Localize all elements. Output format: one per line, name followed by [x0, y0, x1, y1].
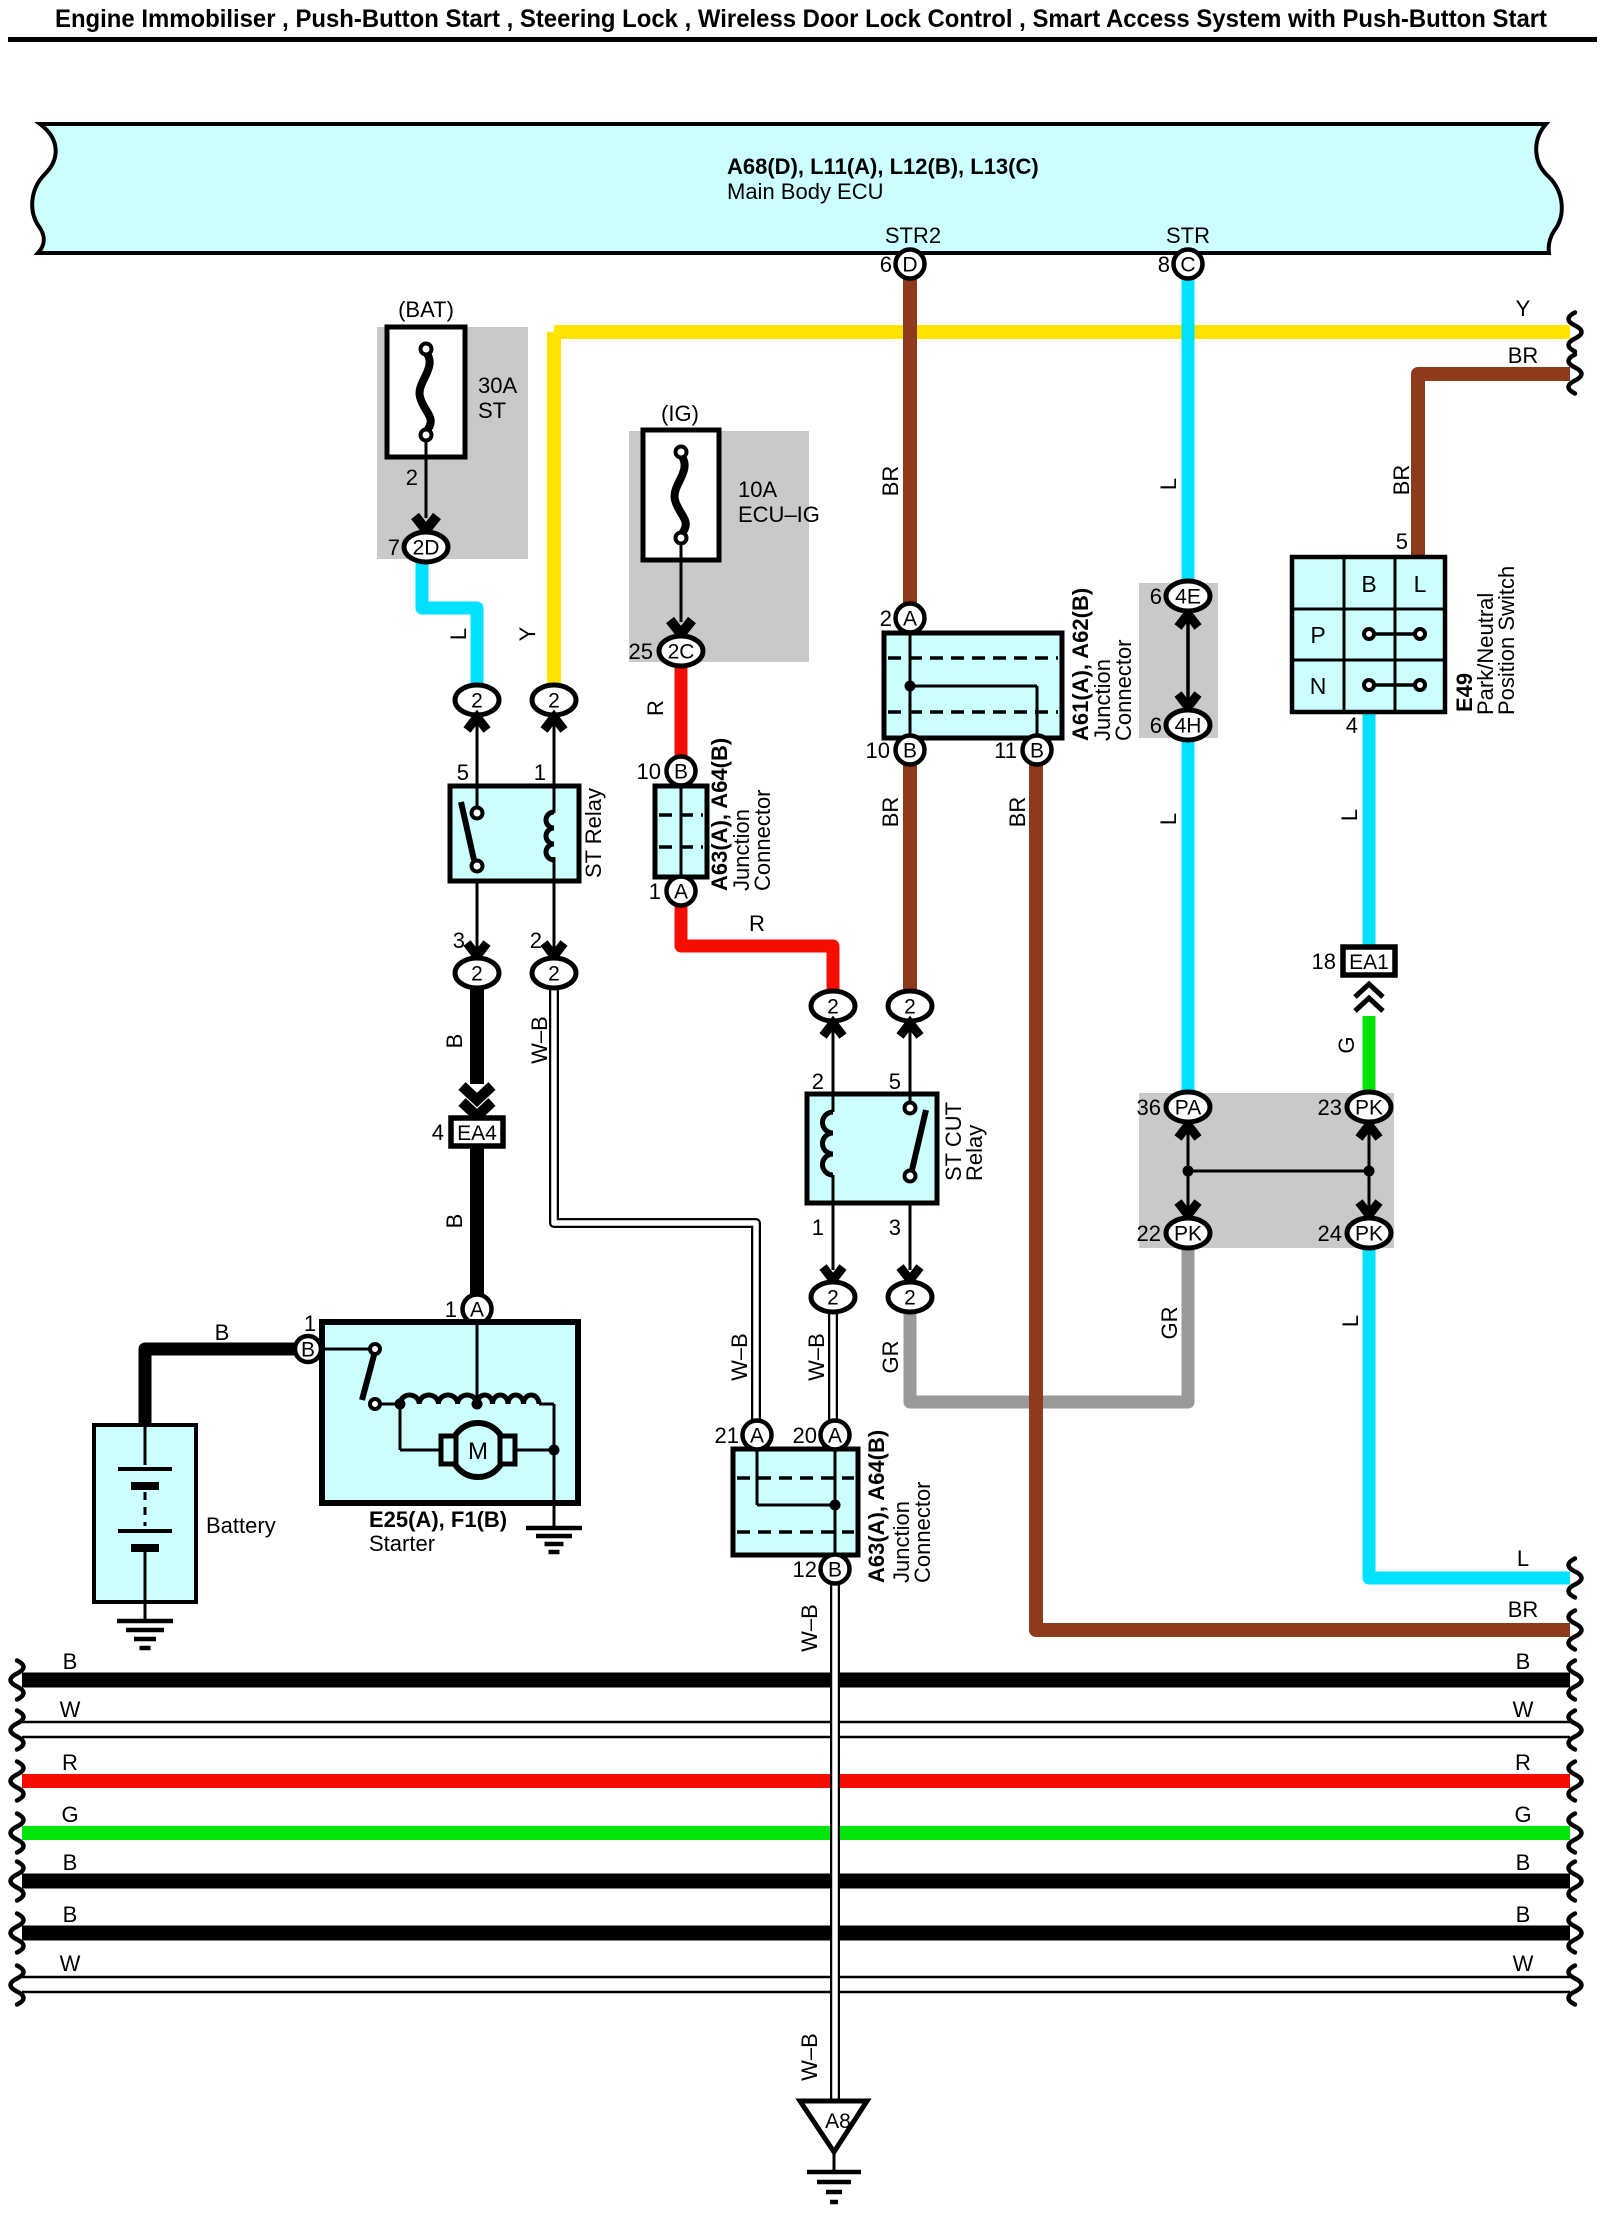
svg-text:L: L	[1156, 813, 1181, 825]
svg-text:R: R	[749, 911, 765, 936]
svg-text:W: W	[1513, 1951, 1534, 1976]
svg-text:(BAT): (BAT)	[398, 297, 454, 322]
svg-text:ECU–IG: ECU–IG	[738, 502, 820, 527]
connector 23 PK	[1347, 1092, 1391, 1122]
bus wire B 1	[22, 1673, 1570, 1688]
svg-text:B: B	[301, 1339, 315, 1362]
fuse bottom terminal	[676, 533, 687, 544]
svg-text:Starter: Starter	[369, 1531, 435, 1556]
break symbol bus left	[11, 1914, 24, 1953]
svg-text:25: 25	[629, 639, 653, 664]
svg-text:L: L	[1337, 809, 1362, 821]
svg-text:BR: BR	[878, 797, 903, 828]
svg-text:2: 2	[548, 963, 560, 986]
svg-text:B: B	[63, 1902, 78, 1927]
break symbol bus left	[11, 1711, 24, 1750]
battery plate short 1	[131, 1482, 159, 1490]
arrow into connector 2	[900, 1023, 920, 1036]
arrow into connector 2	[544, 943, 564, 956]
svg-text:12: 12	[793, 1557, 817, 1582]
starter node 2	[472, 1399, 483, 1410]
svg-text:C: C	[1180, 254, 1195, 277]
connector 2D	[404, 532, 448, 562]
svg-text:4: 4	[1346, 713, 1358, 738]
break symbol bus right	[1569, 1966, 1582, 2005]
svg-text:1: 1	[534, 760, 546, 785]
E49 N contact right	[1415, 680, 1425, 690]
wire BR from ECU pin D to A61 pin A	[903, 278, 917, 604]
svg-text:W: W	[60, 1697, 81, 1722]
svg-text:A: A	[674, 881, 688, 904]
svg-text:BR: BR	[878, 466, 903, 497]
wire L from PK 24 to right edge	[1369, 1248, 1570, 1578]
svg-text:2: 2	[471, 690, 483, 713]
svg-text:L: L	[1156, 478, 1181, 490]
arrow into connector 2	[467, 943, 487, 956]
starter ground lead	[553, 1450, 556, 1528]
ground A8	[800, 2101, 867, 2152]
svg-text:B: B	[903, 740, 917, 763]
connector 2C	[659, 636, 703, 666]
wire ST CUT pin 1	[832, 1203, 835, 1270]
wire ST relay pin 2	[553, 881, 556, 952]
junction internal wire 21	[756, 1449, 759, 1505]
junction internal wire left	[909, 633, 912, 738]
svg-text:18: 18	[1312, 949, 1336, 974]
svg-text:1: 1	[304, 1311, 316, 1336]
svg-text:E25(A), F1(B): E25(A), F1(B)	[369, 1507, 507, 1532]
starter pin 1 A	[463, 1295, 492, 1324]
svg-text:23: 23	[1318, 1095, 1342, 1120]
svg-text:4E: 4E	[1175, 586, 1201, 609]
junction connector A61(A),A62(B)	[884, 633, 1062, 738]
break symbol bus right	[1569, 1862, 1582, 1901]
connector 2 (L wire)	[455, 685, 499, 715]
connector 2 (W-B wire)	[532, 958, 576, 988]
svg-text:B: B	[442, 1214, 467, 1229]
fuse top terminal	[421, 344, 432, 355]
connector 2 (B wire)	[455, 958, 499, 988]
starter wire to motor	[400, 1449, 441, 1452]
junction internal wire	[680, 786, 683, 877]
svg-text:GR: GR	[1157, 1307, 1182, 1340]
wire to ST relay pin 1	[553, 722, 556, 786]
fuse 10A ECU-IG	[643, 430, 719, 560]
svg-text:L: L	[1517, 1546, 1529, 1571]
junction pin 10 B	[667, 757, 696, 786]
wire ST relay pin 3	[476, 881, 479, 952]
svg-text:EA4: EA4	[457, 1122, 497, 1145]
E49 P contact bar	[1369, 632, 1420, 636]
bus wire B 3	[22, 1926, 1570, 1941]
wire between 4E and 4H	[1186, 610, 1190, 711]
svg-text:(IG): (IG)	[661, 401, 699, 426]
connector 36 PA	[1166, 1092, 1210, 1122]
wire B from EA4 to starter pin A	[470, 1146, 484, 1294]
svg-text:36: 36	[1137, 1095, 1161, 1120]
ST CUT coil lead top	[832, 1094, 835, 1112]
ground point EA1	[1343, 947, 1395, 975]
ST relay switch contact bottom	[472, 861, 483, 872]
ST CUT switch blade	[912, 1110, 926, 1170]
svg-text:1: 1	[649, 879, 661, 904]
arrow into connector 2	[823, 1023, 843, 1036]
wire B from ST relay to EA4	[470, 987, 484, 1084]
bus wire W 1	[22, 1721, 1570, 1724]
svg-text:2: 2	[827, 996, 839, 1019]
junction dashed row lines	[888, 656, 1058, 660]
wire BR from right edge to E49 pin 5	[1418, 374, 1570, 557]
svg-text:ST: ST	[478, 398, 506, 423]
break symbol bus left	[11, 1814, 24, 1853]
starter node 3	[549, 1445, 560, 1456]
arrow into PK 23	[1359, 1125, 1379, 1138]
svg-text:B: B	[1361, 571, 1376, 597]
break symbol bus right	[1569, 1661, 1582, 1700]
svg-text:PK: PK	[1355, 1097, 1383, 1120]
svg-text:4H: 4H	[1175, 715, 1202, 738]
svg-text:Engine Immobiliser , Push-Butt: Engine Immobiliser , Push-Button Start ,…	[55, 5, 1548, 33]
wire Y horizontal from ECU area to right edge	[554, 325, 1570, 339]
starter switch contact bottom	[370, 1399, 380, 1409]
arrow into 4H	[1178, 694, 1198, 707]
junction dashed row lines	[659, 813, 703, 817]
junction node	[830, 1500, 841, 1511]
svg-text:10: 10	[637, 759, 661, 784]
svg-text:10A: 10A	[738, 477, 777, 502]
battery	[94, 1425, 196, 1602]
svg-text:P: P	[1310, 622, 1325, 648]
svg-text:L: L	[1338, 1315, 1363, 1327]
svg-text:20: 20	[793, 1423, 817, 1448]
svg-text:2: 2	[530, 928, 542, 953]
starter switch blade	[362, 1355, 374, 1400]
wire B battery to starter	[145, 1349, 296, 1425]
E49 grid vertical 1	[1343, 557, 1346, 712]
ST CUT switch contact top	[905, 1103, 916, 1114]
connector 2 (GR wire)	[888, 1282, 932, 1312]
svg-text:PK: PK	[1355, 1223, 1383, 1246]
motor to node wire	[515, 1449, 554, 1452]
node PA/PK right	[1364, 1166, 1375, 1177]
arrow into PK 22	[1178, 1202, 1198, 1215]
wire W-B from A63 pin 12 to ground A8	[830, 1583, 840, 2100]
break symbol bus left	[11, 1862, 24, 1901]
arrow into connector 2	[900, 1267, 920, 1280]
arrow into 4E	[1178, 614, 1198, 627]
svg-text:A: A	[828, 1425, 842, 1448]
connector shade 4E/4H	[1139, 583, 1218, 738]
arrow into PA	[1178, 1125, 1198, 1138]
svg-text:2: 2	[827, 1287, 839, 1310]
wire R from fuse 2C to A63 pin B	[675, 666, 688, 757]
Main Body ECU band	[32, 124, 1562, 253]
wire L from E49 pin 4 to EA1	[1363, 712, 1376, 947]
junction pin 2 A	[896, 604, 925, 633]
svg-text:2: 2	[406, 465, 418, 490]
svg-text:24: 24	[1318, 1221, 1342, 1246]
svg-text:3: 3	[889, 1215, 901, 1240]
A8 ground lead	[833, 2152, 836, 2172]
svg-text:EA1: EA1	[1349, 951, 1389, 974]
arrow into connector 2	[823, 1267, 843, 1280]
svg-text:B: B	[63, 1850, 78, 1875]
junction branch wire	[757, 1504, 835, 1507]
battery plate long 1	[118, 1467, 172, 1471]
svg-text:A: A	[470, 1299, 484, 1322]
junction dashed row lines	[737, 1476, 854, 1480]
svg-text:10: 10	[866, 738, 890, 763]
break symbol bus left	[11, 1966, 24, 2005]
E49 grid vertical 2	[1394, 557, 1397, 712]
svg-text:8: 8	[1158, 252, 1170, 277]
wire GR from ST CUT relay to PK 22	[910, 1248, 1188, 1402]
svg-text:B: B	[1516, 1649, 1531, 1674]
svg-text:A: A	[750, 1425, 764, 1448]
svg-text:W–B: W–B	[797, 1604, 822, 1652]
svg-text:A8: A8	[825, 2110, 851, 2133]
E49 grid horizontal 1	[1292, 608, 1445, 611]
break symbol bus right	[1569, 1762, 1582, 1801]
svg-text:1: 1	[812, 1215, 824, 1240]
svg-text:21: 21	[715, 1423, 739, 1448]
starter switch contact top	[370, 1344, 380, 1354]
arrow into connector 2	[467, 717, 487, 730]
svg-text:PA: PA	[1175, 1097, 1201, 1120]
connector 6 4E	[1166, 581, 1210, 611]
ground battery	[117, 1619, 173, 1624]
svg-text:5: 5	[1396, 529, 1408, 554]
connector 24 PK	[1347, 1218, 1391, 1248]
svg-text:A: A	[903, 608, 917, 631]
ST CUT coil lead bottom	[832, 1175, 835, 1203]
ST CUT switch lead	[909, 1094, 912, 1103]
wire PA to PK	[1187, 1121, 1190, 1219]
svg-text:W: W	[60, 1951, 81, 1976]
E49 N contact bar	[1369, 683, 1420, 687]
svg-text:7: 7	[388, 535, 400, 560]
starter coil 1	[400, 1395, 477, 1404]
svg-text:D: D	[902, 254, 917, 277]
wire L from ECU pin C to 4E	[1182, 279, 1195, 582]
ground starter	[526, 1526, 582, 1531]
svg-text:Connector: Connector	[1111, 639, 1136, 741]
wire fuse to 2C	[680, 543, 683, 622]
wire to ST relay pin 5	[476, 722, 479, 786]
svg-text:B: B	[215, 1320, 230, 1345]
svg-text:B: B	[1516, 1850, 1531, 1875]
svg-text:B: B	[828, 1559, 842, 1582]
battery lead top	[144, 1425, 147, 1465]
starter switch lead	[321, 1348, 371, 1351]
svg-text:2: 2	[548, 690, 560, 713]
fuse 30A ST	[387, 327, 465, 457]
ST CUT relay coil	[823, 1112, 834, 1175]
svg-text:R: R	[62, 1750, 78, 1775]
wire W-B from ST relay to A63 pin 21	[554, 987, 756, 1420]
starter switch to coil	[380, 1403, 400, 1406]
svg-text:W–B: W–B	[527, 1016, 552, 1064]
wire L from fuse 2D to ST relay	[422, 562, 477, 686]
svg-text:Y: Y	[1516, 296, 1531, 321]
ST relay switch contact top	[472, 808, 483, 819]
break symbol wire L right	[1569, 1559, 1582, 1598]
svg-text:N: N	[1310, 673, 1327, 699]
svg-text:G: G	[61, 1802, 78, 1827]
svg-text:STR2: STR2	[885, 223, 941, 248]
svg-text:6: 6	[880, 252, 892, 277]
svg-text:BR: BR	[1508, 1597, 1539, 1622]
ST relay coil	[546, 812, 554, 860]
ground symbol A8	[807, 2170, 861, 2175]
ST CUT switch contact bottom	[905, 1171, 916, 1182]
svg-text:11: 11	[994, 738, 1017, 763]
wire G from EA1 to PK 23	[1363, 1016, 1376, 1092]
connector shade PA/PK	[1139, 1093, 1394, 1248]
svg-text:Connector: Connector	[910, 1481, 935, 1583]
svg-text:W: W	[1513, 1697, 1534, 1722]
junction pin 10 B	[896, 736, 925, 765]
svg-text:G: G	[1514, 1802, 1531, 1827]
ground point EA4	[451, 1118, 503, 1146]
svg-text:B: B	[442, 1034, 467, 1049]
svg-text:2: 2	[812, 1069, 824, 1094]
svg-text:ST Relay: ST Relay	[581, 788, 606, 878]
svg-text:B: B	[674, 761, 688, 784]
starter E25(A),F1(B)	[322, 1322, 578, 1503]
svg-text:GR: GR	[878, 1341, 903, 1374]
junction branch wire down	[1036, 686, 1039, 738]
connector 2 (R wire)	[811, 991, 855, 1021]
bus wire W 2	[22, 1976, 1570, 1979]
starter wire left branch	[399, 1404, 402, 1450]
battery lead bottom	[144, 1552, 147, 1621]
starter node 1	[395, 1399, 406, 1410]
break symbol bus right	[1569, 1814, 1582, 1853]
junction internal wire 20-12	[834, 1449, 837, 1555]
svg-text:Position Switch: Position Switch	[1494, 566, 1519, 715]
battery plate short 2	[131, 1544, 159, 1552]
wire BR from A61 pin B11 to right edge	[1036, 764, 1570, 1630]
connector 6 4H	[1166, 710, 1210, 740]
svg-text:6: 6	[1150, 713, 1162, 738]
svg-text:B: B	[63, 1649, 78, 1674]
svg-text:Y: Y	[515, 626, 540, 641]
ECU pin 6 D	[896, 250, 925, 279]
bus wire G	[22, 1826, 1570, 1840]
svg-text:BR: BR	[1389, 465, 1414, 496]
junction connector A63(A),A64(B) lower	[733, 1449, 858, 1555]
bus wire R	[22, 1774, 1570, 1788]
svg-text:G: G	[1334, 1036, 1359, 1053]
arrow into EA1 (outline chevrons)	[1355, 984, 1383, 997]
svg-text:1: 1	[445, 1297, 457, 1322]
battery plate long 2	[118, 1529, 172, 1533]
svg-text:2: 2	[880, 606, 892, 631]
break symbol bus left	[11, 1762, 24, 1801]
svg-text:PK: PK	[1174, 1223, 1202, 1246]
starter pin 1 B	[295, 1336, 321, 1362]
svg-text:M: M	[468, 1438, 488, 1465]
ST relay coil lead bottom	[553, 857, 556, 881]
wire ST CUT pin 3	[909, 1203, 912, 1270]
junction pin 20 A	[821, 1421, 850, 1450]
break symbol bus right	[1569, 1914, 1582, 1953]
svg-text:STR: STR	[1166, 223, 1210, 248]
fuse block shade (IG)	[629, 431, 809, 662]
wire PK23 to PK24	[1368, 1121, 1371, 1219]
junction pin 21 A	[743, 1421, 772, 1450]
wire to ST CUT relay pin 5	[909, 1028, 912, 1092]
break symbol wire Y right	[1569, 313, 1582, 352]
break symbol bus left	[11, 1661, 24, 1700]
svg-text:B: B	[1030, 740, 1044, 763]
E49 N contact left	[1364, 680, 1374, 690]
arrow into 2C	[670, 620, 692, 634]
title rule	[8, 37, 1597, 42]
starter motor M	[451, 1423, 505, 1477]
ST relay coil lead top	[553, 786, 556, 813]
svg-text:Main Body ECU: Main Body ECU	[727, 179, 884, 204]
junction connector A63(A),A64(B) upper	[655, 786, 707, 877]
svg-text:Battery: Battery	[206, 1513, 276, 1538]
wire between nodes	[1188, 1170, 1369, 1173]
svg-text:2: 2	[471, 963, 483, 986]
bus wire B 2	[22, 1874, 1570, 1889]
svg-text:2D: 2D	[413, 537, 440, 560]
E49 P contact right	[1415, 629, 1425, 639]
arrow into connector 2	[544, 717, 564, 730]
svg-text:W–B: W–B	[727, 1333, 752, 1381]
svg-text:BR: BR	[1508, 343, 1539, 368]
connector 2 (BR wire)	[888, 991, 932, 1021]
svg-text:5: 5	[457, 760, 469, 785]
break symbol bus right	[1569, 1711, 1582, 1750]
switch E49 Park/Neutral Position Switch	[1292, 557, 1445, 712]
arrow into PK 24	[1359, 1202, 1379, 1215]
svg-text:A68(D), L11(A), L12(B), L13(C): A68(D), L11(A), L12(B), L13(C)	[727, 154, 1039, 179]
svg-text:BR: BR	[1005, 797, 1030, 828]
break symbol wire BR right bottom	[1569, 1611, 1582, 1650]
svg-text:R: R	[1515, 1750, 1531, 1775]
svg-text:A63(A), A64(B): A63(A), A64(B)	[864, 1430, 889, 1583]
wire L from 4H to PA	[1182, 739, 1195, 1092]
ECU pin 8 C	[1174, 250, 1203, 279]
starter coil to node	[539, 1403, 554, 1406]
wire R from A63 pin A to ST CUT relay	[681, 905, 833, 992]
arrow into EA4	[462, 1086, 492, 1100]
junction pin 1 A	[667, 877, 696, 906]
ST relay switch blade	[461, 802, 474, 860]
svg-text:Connector: Connector	[750, 789, 775, 891]
starter wire down	[553, 1404, 556, 1450]
svg-text:L: L	[446, 628, 471, 640]
svg-text:30A: 30A	[478, 373, 517, 398]
junction pin 12 B	[821, 1555, 850, 1584]
svg-text:2C: 2C	[668, 641, 695, 664]
relay ST Relay	[450, 786, 579, 881]
svg-text:2: 2	[904, 1287, 916, 1310]
fuse block shade (BAT)	[377, 327, 528, 559]
ST relay switch lead	[476, 786, 479, 808]
svg-text:4: 4	[432, 1120, 444, 1145]
svg-text:5: 5	[889, 1069, 901, 1094]
connector 22 PK	[1166, 1218, 1210, 1248]
svg-text:22: 22	[1137, 1221, 1161, 1246]
E49 grid horizontal 2	[1292, 659, 1445, 662]
wire W-B from ST CUT relay to A63 pin 20	[828, 1311, 838, 1420]
junction branch wire	[910, 685, 1037, 688]
